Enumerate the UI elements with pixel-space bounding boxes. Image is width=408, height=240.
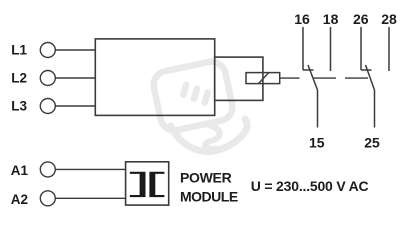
watermark rounded square (151, 59, 235, 133)
svg-text:POWER: POWER (180, 170, 232, 186)
svg-text:25: 25 (364, 135, 380, 151)
output block rectangle (215, 57, 263, 100)
wire A2 (55, 197, 125, 199)
svg-text:MODULE: MODULE (180, 189, 238, 205)
mechanical link dash 1 (314, 77, 337, 79)
svg-text:A2: A2 (11, 192, 28, 207)
relay coil K1 (246, 73, 280, 84)
terminal line 18 (330, 27, 332, 71)
watermark plug pin 2 (194, 89, 197, 99)
main module box (95, 39, 214, 116)
svg-text:L3: L3 (11, 99, 27, 114)
terminal line 28 (388, 27, 390, 71)
wire L1 (55, 49, 95, 51)
terminal line 16 (302, 27, 304, 70)
wire L2 (55, 77, 95, 79)
contact tick 16 (303, 69, 314, 71)
terminal circle L1 (40, 43, 55, 58)
svg-text:A1: A1 (11, 163, 29, 178)
terminal line 26 (360, 27, 362, 70)
transformer icon right core (149, 172, 164, 197)
watermark plug pin 1 (183, 85, 186, 95)
watermark plug pin 3 (205, 92, 208, 102)
contact blade 2 (366, 65, 375, 90)
terminal circle L3 (40, 99, 55, 114)
svg-text:28: 28 (381, 11, 397, 27)
watermark smile curve (171, 119, 247, 152)
svg-text:18: 18 (323, 11, 339, 27)
contact blade 1 (308, 65, 318, 90)
svg-text:16: 16 (294, 11, 310, 27)
terminal circle A1 (40, 162, 55, 177)
contact tick 26 (361, 69, 372, 71)
wire A1 (55, 168, 125, 170)
wire coil output (280, 77, 300, 79)
terminal line 25 (374, 90, 376, 128)
svg-text:U = 230...500 V AC: U = 230...500 V AC (251, 178, 369, 194)
mechanical link dash 2 (345, 77, 368, 79)
watermark logo (151, 59, 247, 151)
wire L3 (55, 105, 95, 107)
svg-text:L2: L2 (11, 71, 27, 86)
relay coil diagonal (258, 73, 268, 84)
watermark cable squiggle (205, 124, 220, 149)
svg-text:26: 26 (353, 11, 369, 27)
transformer icon left core (130, 172, 146, 197)
svg-text:15: 15 (309, 135, 325, 151)
power module box (126, 162, 169, 205)
terminal circle L2 (40, 71, 55, 86)
terminal line 15 (317, 90, 319, 128)
terminal circle A2 (40, 191, 55, 206)
svg-text:L1: L1 (11, 43, 27, 58)
